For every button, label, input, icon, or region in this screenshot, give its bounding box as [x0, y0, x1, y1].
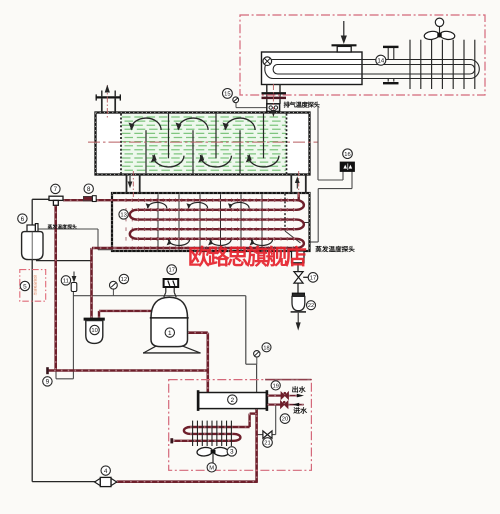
svg-text:14: 14 — [377, 57, 384, 64]
svg-text:10: 10 — [91, 327, 97, 334]
svg-text:20: 20 — [282, 416, 288, 423]
svg-text:蒸发温度探头: 蒸发温度探头 — [315, 245, 355, 253]
svg-text:8: 8 — [87, 186, 91, 193]
svg-text:出水: 出水 — [292, 385, 307, 394]
svg-text:17: 17 — [310, 275, 316, 281]
svg-text:15: 15 — [224, 91, 230, 97]
svg-text:进水: 进水 — [293, 406, 308, 415]
svg-text:16: 16 — [344, 151, 350, 158]
svg-text:5: 5 — [23, 283, 27, 290]
svg-text:4: 4 — [104, 468, 108, 475]
svg-text:7: 7 — [54, 186, 58, 193]
svg-text:9: 9 — [46, 379, 50, 386]
svg-text:欧路思旗舰店: 欧路思旗舰店 — [33, 275, 37, 296]
svg-text:18: 18 — [263, 345, 269, 351]
svg-text:2: 2 — [231, 397, 235, 404]
svg-text:12: 12 — [121, 276, 127, 283]
svg-text:M: M — [209, 466, 214, 472]
svg-text:欧路思旗舰店: 欧路思旗舰店 — [188, 245, 307, 270]
svg-text:排气温度探头: 排气温度探头 — [284, 101, 321, 109]
svg-text:22: 22 — [308, 303, 314, 309]
svg-text:17: 17 — [168, 268, 174, 274]
svg-text:3: 3 — [230, 449, 234, 456]
svg-text:13: 13 — [120, 211, 126, 218]
svg-text:1: 1 — [168, 330, 172, 337]
svg-text:蒸发温度探头: 蒸发温度探头 — [48, 224, 77, 231]
svg-text:21: 21 — [264, 440, 270, 447]
svg-text:19: 19 — [273, 383, 279, 389]
svg-text:6: 6 — [21, 216, 25, 223]
svg-text:11: 11 — [63, 278, 69, 284]
